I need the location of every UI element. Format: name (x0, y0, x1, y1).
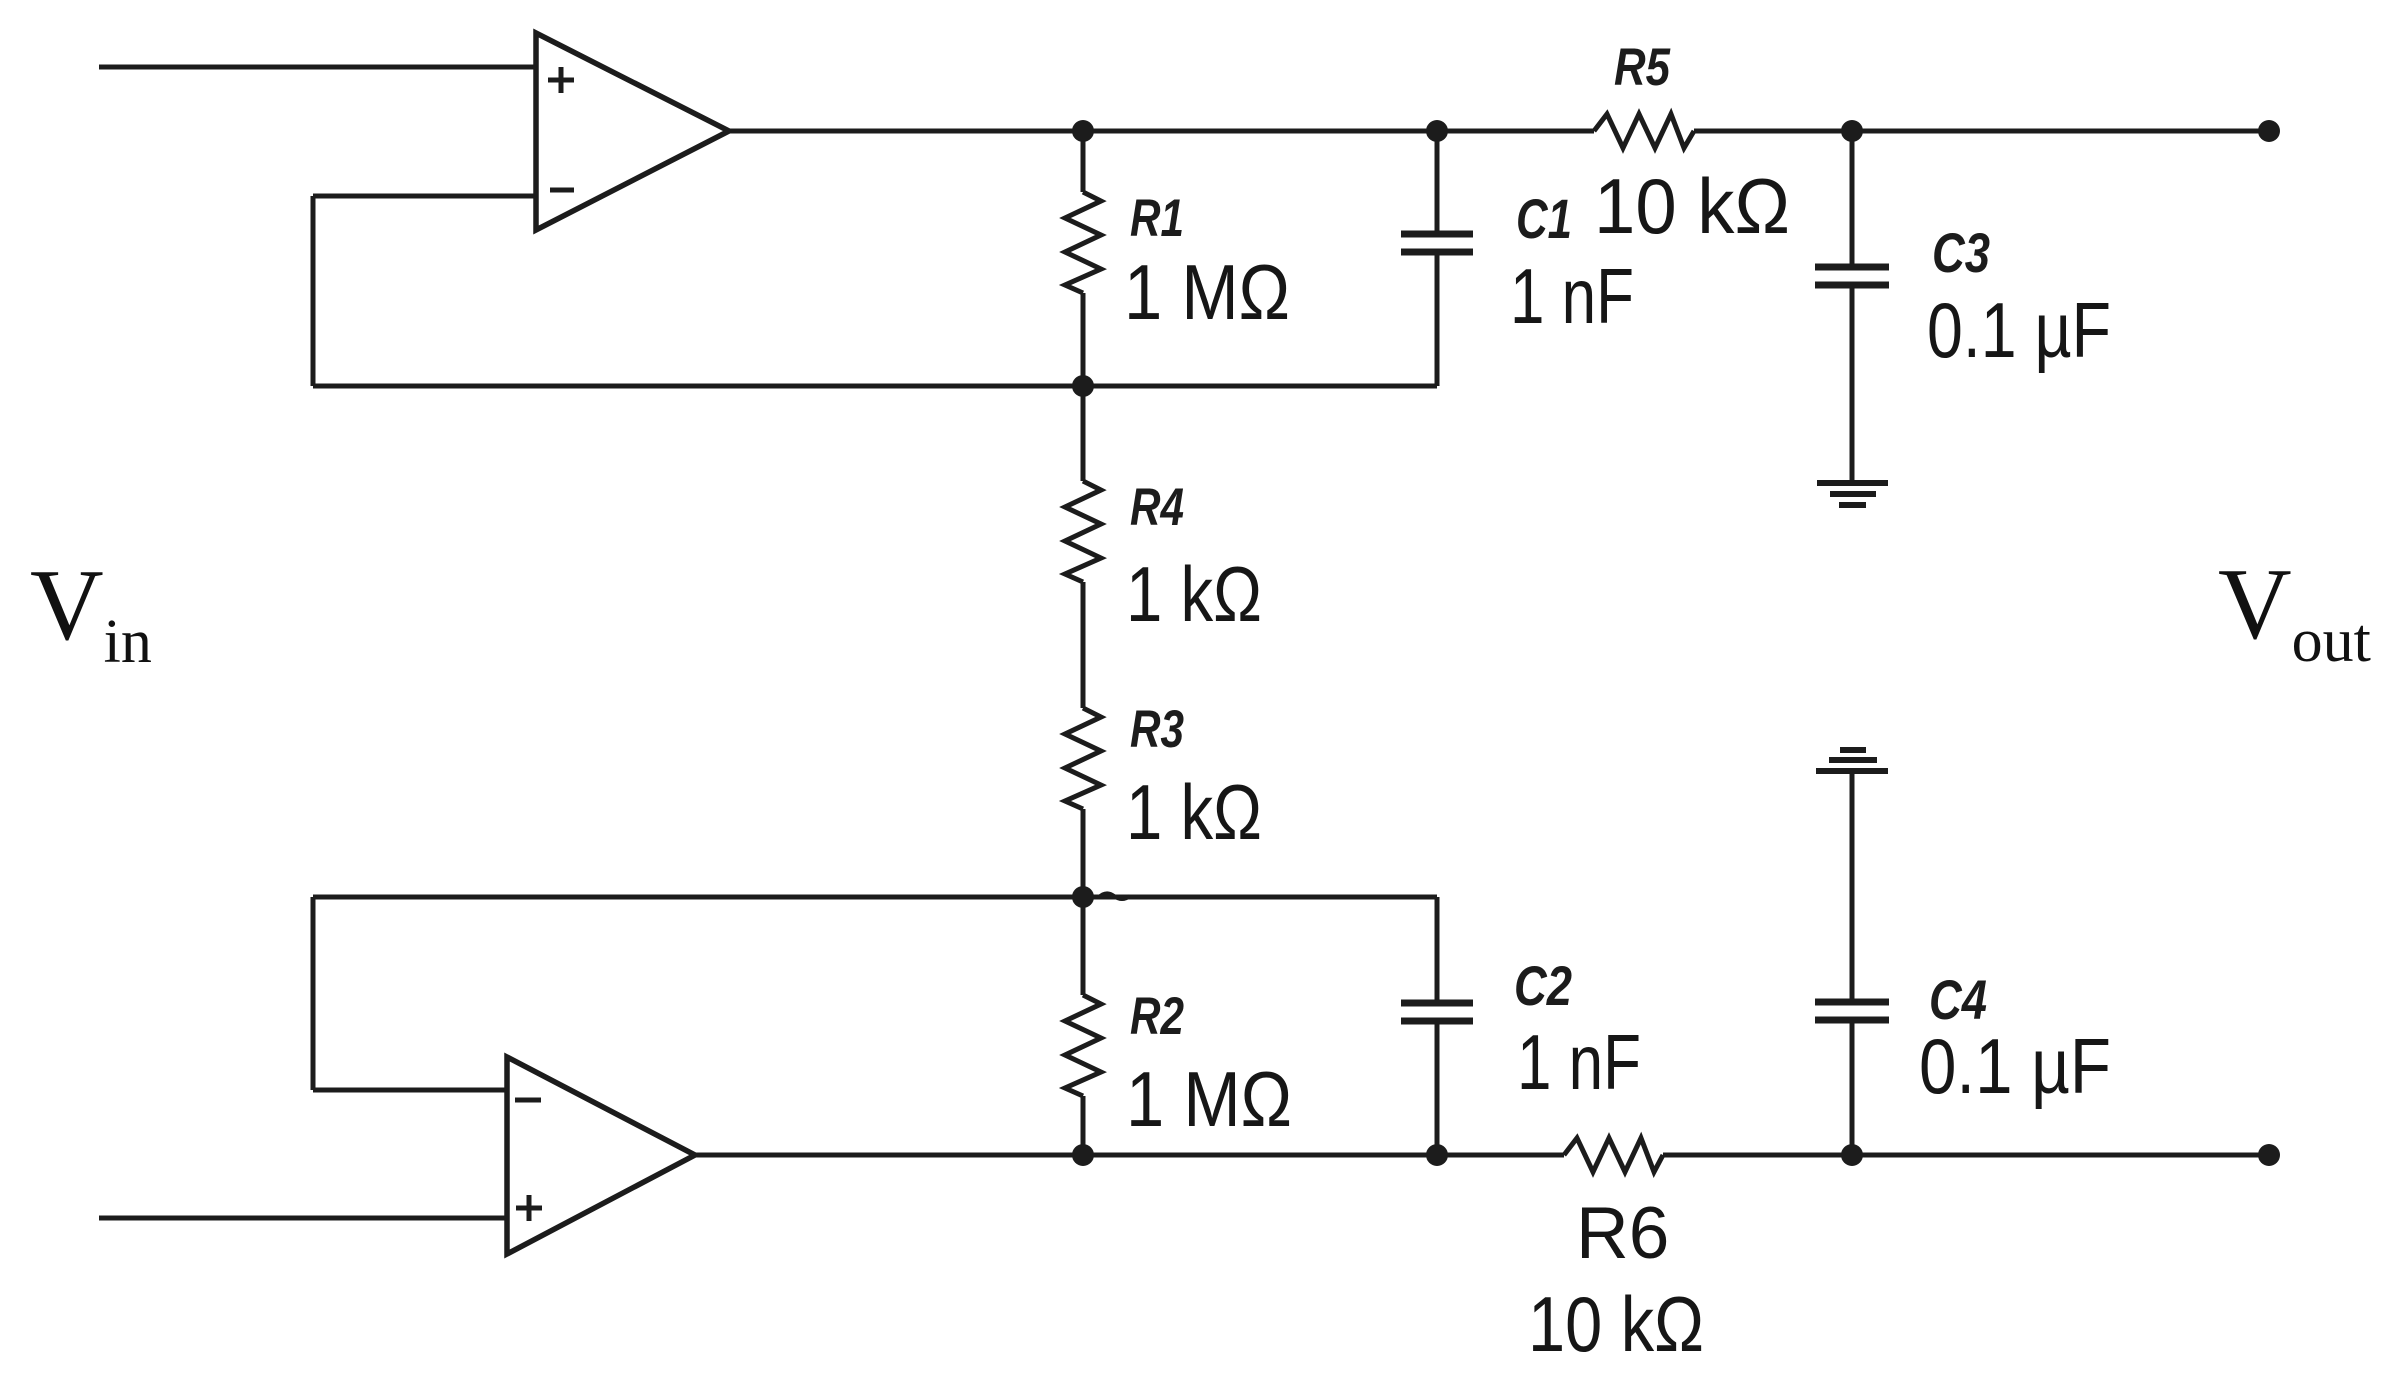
svg-text:1 nF: 1 nF (1510, 252, 1634, 340)
capacitor C4 (1815, 771, 1889, 1155)
svg-text:1 kΩ: 1 kΩ (1126, 550, 1262, 638)
junction node R3 bottom (1072, 886, 1094, 908)
wire U1 feedback horizontal (313, 384, 1437, 389)
svg-text:R4: R4 (1130, 478, 1184, 537)
svg-text:R2: R2 (1130, 987, 1184, 1046)
svg-text:0.1 µF: 0.1 µF (1919, 1022, 2111, 1110)
svg-text:1 MΩ: 1 MΩ (1126, 1055, 1292, 1143)
wire top output segment B (1694, 129, 2269, 134)
junction node R1 bottom (1072, 375, 1094, 397)
junction node R2 bottom (1072, 1144, 1094, 1166)
wire U1 feedback vertical (311, 196, 316, 386)
ground above C4 (1816, 750, 1888, 771)
resistor R3 (1065, 708, 1101, 897)
svg-text:C2: C2 (1514, 954, 1572, 1017)
wire U2 inverting input (313, 1088, 507, 1093)
wire U2 feedback vertical (311, 897, 316, 1090)
wire U1 noninverting input (99, 65, 536, 70)
stray tick at node R3 bottom (1098, 893, 1130, 899)
svg-text:10 kΩ: 10 kΩ (1528, 1280, 1704, 1368)
junction node top at R1 (1072, 120, 1094, 142)
wire U2 feedback horizontal (313, 895, 1437, 900)
resistor R2 (1065, 897, 1101, 1155)
svg-text:10 kΩ: 10 kΩ (1594, 162, 1790, 250)
wire top output segment A (729, 129, 1594, 134)
junction node C2 bottom (1426, 1144, 1448, 1166)
wire U2 noninverting input (99, 1216, 507, 1221)
capacitor C2 (1401, 897, 1473, 1155)
resistor R4 (1065, 386, 1101, 708)
terminal node Vout top (2258, 120, 2280, 142)
resistor R6 (1564, 1138, 1663, 1172)
op-amp U2 (507, 1057, 695, 1254)
svg-text:C3: C3 (1932, 221, 1990, 284)
wire U1 inverting input (313, 194, 536, 199)
svg-text:R1: R1 (1130, 189, 1184, 248)
resistor R1 (1065, 131, 1101, 386)
wire bottom output segment B (1663, 1153, 2269, 1158)
svg-text:1 nF: 1 nF (1517, 1018, 1641, 1106)
svg-text:R5: R5 (1614, 38, 1671, 97)
op-amp U1 (536, 33, 729, 230)
svg-text:R3: R3 (1130, 700, 1184, 759)
svg-text:1 MΩ: 1 MΩ (1124, 248, 1290, 336)
junction node top at C1 (1426, 120, 1448, 142)
ground below C3 (1817, 483, 1888, 505)
resistor R5 (1594, 114, 1694, 148)
svg-text:R6: R6 (1576, 1193, 1669, 1274)
svg-text:C1: C1 (1516, 187, 1572, 250)
svg-text:0.1 µF: 0.1 µF (1927, 286, 2111, 374)
terminal node Vout bottom (2258, 1144, 2280, 1166)
svg-text:1 kΩ: 1 kΩ (1126, 768, 1262, 856)
capacitor C3 (1815, 131, 1889, 481)
wire bottom output segment A (695, 1153, 1564, 1158)
capacitor C1 (1401, 131, 1473, 386)
junction node C4 bottom (1841, 1144, 1863, 1166)
junction node top at C3 (1841, 120, 1863, 142)
